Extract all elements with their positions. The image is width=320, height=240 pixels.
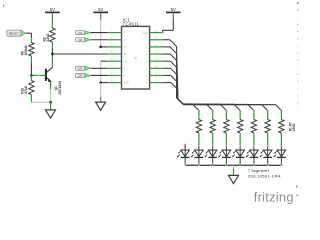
wire base: [31, 74, 46, 76]
wire VDD vertical: [172, 19, 174, 31]
wire Q1 to IC: [91, 32, 108, 34]
svg-text:Q0: Q0: [78, 74, 82, 78]
svg-text:22kΩ: 22kΩ: [46, 33, 50, 42]
svg-text:VDD: VDD: [142, 31, 148, 35]
wire R8 to collector node: [51, 49, 53, 54]
node base junction: [30, 74, 33, 77]
svg-text:B: B: [123, 31, 125, 35]
wire R8 bottom lead: [51, 42, 53, 49]
resistor R10: [29, 81, 34, 95]
wire 5V to IC pin 3: [100, 20, 102, 47]
svg-text:C: C: [123, 38, 125, 42]
wire collector node to IC pin 4: [52, 53, 107, 55]
resistor R4 330: [239, 110, 241, 112]
resistor R3 330: [226, 110, 228, 112]
wire IC pin to resistor R1: [164, 39, 170, 41]
svg-text:Q2: Q2: [78, 38, 82, 42]
bendpoint VDD: [162, 32, 164, 34]
wire ground lead 3: [233, 169, 235, 176]
wire Q3 to IC: [91, 67, 108, 69]
wire Q0 to IC: [91, 74, 108, 76]
LED segment b of display: [212, 146, 214, 157]
node collector junction: [51, 53, 54, 56]
wire VDD horizontal: [163, 29, 174, 31]
wire pin8 stub: [101, 82, 108, 84]
wire R10 bottom lead: [30, 95, 32, 103]
display common cathode bus: [185, 164, 283, 166]
resistor R1 330: [198, 110, 200, 112]
wire pin3 stub: [101, 46, 108, 48]
LED segment dp of display: [184, 146, 186, 157]
wire IC pin to resistor R5: [164, 67, 171, 69]
connector J2 Q2: [76, 38, 91, 42]
stray mark: [3, 4, 4, 7]
connector J5 RESET: [7, 30, 26, 36]
svg-text:100kΩ: 100kΩ: [24, 45, 28, 55]
power 5V P1: [45, 11, 60, 13]
wire IC pin to resistor R3: [164, 53, 171, 55]
wire Q2 to IC: [91, 39, 108, 41]
red speck: [296, 186, 298, 188]
wire IC pin to resistor R6: [164, 74, 171, 76]
wire emitter to ground node: [50, 89, 52, 102]
wire IC pin 5 to ground bus v: [100, 61, 102, 82]
svg-text:5V: 5V: [50, 7, 55, 12]
resistor R8: [50, 28, 55, 42]
svg-text:330Ω: 330Ω: [292, 123, 296, 131]
wire IC pin to resistor R4: [164, 60, 171, 62]
LED segment g of display: [280, 146, 282, 157]
wire to ground: [50, 102, 52, 110]
wire IC pin 5 to ground bus h: [101, 60, 108, 62]
resistor R9: [29, 43, 34, 56]
power 5V P2: [93, 11, 108, 13]
svg-text:LT: LT: [123, 45, 126, 49]
connector J3 Q3: [76, 66, 91, 70]
svg-text:RESET: RESET: [9, 32, 19, 36]
green speck: [297, 195, 299, 197]
wire 5V lead: [100, 13, 102, 20]
LED segment d of display: [239, 146, 241, 157]
op-amp U1 / IC IC1 TC4511 body: [122, 26, 150, 89]
connector J1 Q1: [76, 31, 91, 35]
unconnected pin lead (red): [184, 144, 186, 148]
wire R9 to base node: [30, 63, 32, 74]
svg-text:2SC1815: 2SC1815: [58, 81, 62, 95]
IC1 pin leads: [108, 32, 122, 34]
svg-text:LE: LE: [123, 59, 126, 63]
bendpoint base: [38, 75, 40, 77]
LED segment e of display: [253, 146, 255, 157]
wire RESET to R9 horizontal: [26, 32, 32, 34]
bendpoint: [30, 38, 32, 40]
ground GND2: [96, 102, 106, 110]
wire ground 2 lead: [100, 97, 102, 102]
wire 5V lead 3: [172, 13, 174, 18]
svg-text:TC4511: TC4511: [123, 22, 140, 27]
resistor R6 330: [267, 110, 269, 112]
wire 5V to R8: [51, 13, 53, 28]
ground GND3: [229, 175, 239, 183]
wire R9 top lead: [30, 39, 32, 42]
svg-text:BI: BI: [123, 52, 126, 56]
resistor R7 330: [281, 110, 283, 112]
resistor R5 330: [253, 110, 255, 112]
node pin8 junction: [99, 81, 102, 84]
svg-text:Q1: Q1: [78, 31, 82, 35]
wire base node to R10: [30, 76, 32, 81]
wire IC pin to resistor R2: [164, 46, 171, 48]
ground GND1: [46, 110, 56, 118]
svg-text:D: D: [123, 66, 125, 70]
LED segment a of display: [198, 146, 200, 157]
connector J4 Q0: [76, 73, 91, 77]
LED segment c of display: [225, 146, 227, 157]
svg-text:OSL10561-LRA: OSL10561-LRA: [248, 173, 281, 178]
svg-text:Q3: Q3: [78, 67, 82, 71]
wire collector lead: [51, 57, 53, 68]
wire R9 bottom lead: [30, 56, 32, 63]
wire cathode to ground: [233, 165, 235, 168]
svg-text:5V: 5V: [98, 7, 103, 12]
svg-text:VSS: VSS: [123, 81, 129, 85]
edge speck column: [297, 2, 299, 4]
bendpoints on cathode bus: [184, 165, 186, 167]
svg-text:A: A: [123, 74, 125, 78]
wire emitter lead: [50, 82, 52, 90]
wire VDD jog: [162, 30, 164, 32]
power 5V P3: [166, 11, 181, 13]
svg-text:47kΩ: 47kΩ: [24, 85, 28, 94]
svg-text:fritzing: fritzing: [254, 190, 294, 205]
resistor R2 330: [212, 110, 214, 112]
node pin3 junction: [99, 46, 102, 49]
wire collector vertical: [51, 54, 53, 57]
svg-text:5V: 5V: [171, 7, 176, 12]
LED segment f of display: [267, 146, 269, 157]
wire RESET to R9 vertical: [30, 33, 32, 39]
transistor Q1 2SC1815: [46, 67, 62, 95]
wire to ground 2: [100, 83, 102, 97]
wire IC pin to resistor R7: [164, 82, 172, 84]
node emitter junction: [49, 101, 52, 104]
wire R10 to emitter node: [31, 101, 50, 103]
